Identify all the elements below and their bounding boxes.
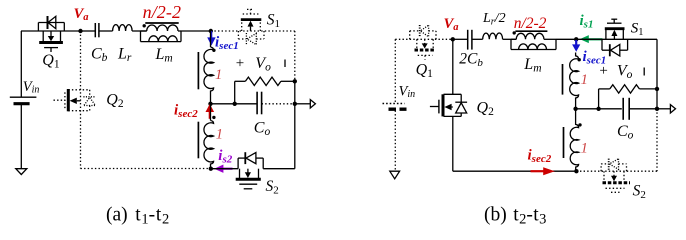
mosfet Q2 (b) active	[430, 94, 467, 116]
svg-text:isec1: isec1	[215, 34, 239, 52]
S1 body diode (b)	[602, 39, 628, 56]
minus tick of Vo (a)	[284, 60, 286, 68]
Q2 arrow (a)	[70, 98, 81, 104]
switch S1 (b) active	[605, 19, 625, 39]
svg-text:is2: is2	[218, 148, 232, 166]
wire battery to Q1 and node Va	[21, 30, 81, 32]
polarity dot upper secondary (b)	[578, 58, 581, 61]
source Vin battery	[10, 31, 37, 175]
svg-text:1: 1	[215, 67, 222, 83]
svg-text:isec2: isec2	[528, 148, 552, 166]
red arrow i_sec2 (a)	[206, 104, 215, 119]
svg-text:Va: Va	[444, 16, 459, 33]
svg-text:1: 1	[581, 72, 588, 88]
svg-text:Co: Co	[254, 120, 271, 139]
Q1 channel bar (b)	[415, 49, 436, 52]
dotted right rail to S2 (b)	[656, 109, 658, 171]
svg-text:Vin: Vin	[23, 79, 40, 96]
right rail (b)	[656, 39, 658, 109]
dotted wire node to S1 (a)	[211, 30, 295, 32]
bottom rail solid (b)	[453, 170, 577, 172]
svg-text:Q1: Q1	[42, 52, 60, 71]
inductor Lr/2 (b)	[483, 33, 503, 39]
inductor Lr	[113, 25, 133, 31]
S1 body diode (a) dotted	[238, 31, 264, 45]
S2 channel bar (b)	[603, 181, 631, 184]
svg-text:Q2: Q2	[477, 99, 495, 118]
node Va (b)	[451, 37, 455, 41]
svg-text:is1: is1	[580, 13, 594, 31]
svg-text:Lm: Lm	[523, 56, 541, 75]
polarity dot primary (a)	[143, 24, 146, 27]
output bottom wire (b)	[576, 108, 622, 110]
transformer primary winding n/2-2 (b)	[511, 33, 556, 39]
svg-text:Vo: Vo	[255, 55, 271, 74]
source Vin battery (b) inactive	[383, 104, 407, 179]
node top secondary (a)	[209, 29, 213, 33]
svg-text:Lr/2: Lr/2	[482, 11, 506, 28]
capacitor Co (b)	[623, 98, 657, 120]
wire transformer to top node (b)	[556, 38, 576, 40]
svg-text:Lm: Lm	[155, 46, 173, 65]
mosfet Q1	[38, 23, 64, 53]
secondary winding 1 upper (b)	[570, 53, 579, 109]
dotted left rail (b)	[395, 39, 453, 170]
svg-text:1: 1	[216, 126, 223, 142]
wire bottom node to S2 (a)	[211, 168, 238, 170]
wire node to S1 to right rail (b)	[576, 38, 657, 40]
green arrow i_s1 (b)	[580, 35, 603, 43]
load resistor (a)	[235, 77, 295, 104]
switch S1 (a) inactive	[242, 9, 261, 31]
purple arrow i_s2 (a)	[214, 165, 232, 173]
right rail solid (a)	[294, 81, 296, 168]
svg-text:(b)t2-t3: (b)t2-t3	[484, 205, 546, 228]
svg-text:+: +	[236, 56, 244, 72]
output arrow (a)	[295, 100, 316, 108]
transformer core bar (a)	[145, 22, 178, 24]
node resistor right (a)	[293, 79, 297, 83]
svg-text:Vin: Vin	[399, 84, 416, 101]
left rail solid (b) through Q2	[452, 39, 454, 171]
node output (a)	[293, 102, 297, 106]
svg-text:+: +	[599, 63, 607, 79]
node resistor left lead (a)	[233, 102, 237, 106]
svg-text:Q2: Q2	[106, 91, 124, 110]
S1 channel bar (a)	[241, 18, 261, 21]
secondary winding 1 lower (b)	[570, 109, 578, 171]
svg-text:(a)t1-t2: (a)t1-t2	[106, 205, 169, 228]
core line lower secondary (b)	[563, 127, 565, 158]
dotted wire S1 right down (a)	[294, 31, 296, 81]
svg-text:Va: Va	[74, 6, 89, 23]
svg-text:1: 1	[581, 141, 588, 157]
polarity dot primary (b)	[513, 31, 516, 34]
secondary winding 1 lower (a)	[204, 104, 214, 169]
mosfet Q1 (b) inactive	[410, 25, 436, 60]
svg-text:Cb: Cb	[91, 46, 108, 65]
node secondary mid (a)	[208, 102, 212, 106]
svg-text:Lr: Lr	[117, 46, 132, 65]
svg-text:n/2-2: n/2-2	[143, 2, 182, 22]
svg-text:2Cb: 2Cb	[459, 50, 483, 69]
wire Lr/2 to transformer (b)	[503, 38, 517, 40]
S2 arrow (b)	[611, 171, 617, 181]
core line lower secondary (a)	[197, 122, 199, 159]
capacitor 2Cb (b)	[453, 30, 483, 50]
magnetizing inductor Lm (a)	[141, 31, 182, 42]
svg-text:S2: S2	[633, 183, 646, 202]
load resistor (b)	[599, 85, 657, 109]
svg-text:isec2: isec2	[174, 102, 198, 120]
dotted wire Co to right rail (a)	[262, 103, 295, 105]
magnetizing inductor Lm (b)	[511, 39, 556, 49]
clamp mosfet Q2 (a) inactive	[54, 90, 96, 111]
Q2 channel bar (a)	[67, 89, 70, 111]
dotted bottom rail (a)	[81, 168, 211, 170]
node resistor left lead (b)	[596, 107, 600, 111]
capacitor Co (a)	[257, 92, 262, 115]
S1 arrow (a)	[248, 21, 254, 31]
node secondary bottom (a)	[209, 167, 213, 171]
wire transformer to top node (a)	[181, 30, 211, 32]
dotted left rail from Va (a)	[80, 31, 82, 169]
output bottom wire (a)	[211, 103, 257, 105]
core line upper secondary (b)	[562, 64, 564, 95]
svg-text:Co: Co	[617, 123, 634, 142]
transformer primary winding n/2-2	[141, 25, 182, 31]
node output (b)	[655, 107, 659, 111]
node top secondary (b)	[574, 37, 578, 41]
transformer core bar (b)	[515, 30, 547, 32]
switch S2 (a) active	[236, 152, 264, 189]
wire S2 to right rail (a)	[263, 168, 295, 170]
polarity dot lower secondary (a)	[212, 116, 215, 119]
switch S2 (b) inactive	[601, 159, 626, 193]
minus tick of Vo (b)	[643, 68, 645, 76]
body diode of Q1	[48, 16, 56, 29]
blue arrow i_sec1 (b)	[572, 40, 580, 52]
node transformer mid (b)	[573, 107, 577, 111]
capacitor Cb	[81, 23, 113, 37]
red arrow i_sec2 (b)	[531, 167, 555, 175]
node bottom (b)	[574, 169, 578, 173]
svg-text:n/2-2: n/2-2	[514, 15, 547, 32]
svg-text:S1: S1	[631, 21, 644, 39]
svg-text:S1: S1	[267, 12, 280, 31]
polarity dot lower secondary (b)	[578, 123, 581, 126]
svg-text:Vo: Vo	[617, 62, 633, 81]
svg-text:Q1: Q1	[416, 61, 434, 80]
blue arrow i_sec1 (a)	[207, 31, 216, 46]
node resistor right (b)	[655, 87, 659, 91]
secondary winding 1 upper (a)	[204, 31, 214, 104]
polarity dot upper secondary (a)	[212, 49, 215, 52]
dotted bottom wire to S2 (b)	[576, 170, 657, 172]
svg-text:S2: S2	[266, 178, 279, 197]
output arrow (b)	[657, 105, 676, 113]
node Va (a)	[78, 29, 82, 33]
core line upper secondary (a)	[197, 52, 199, 89]
wire Lr to transformer	[132, 30, 147, 32]
Q1 arrow (b)	[422, 39, 428, 48]
